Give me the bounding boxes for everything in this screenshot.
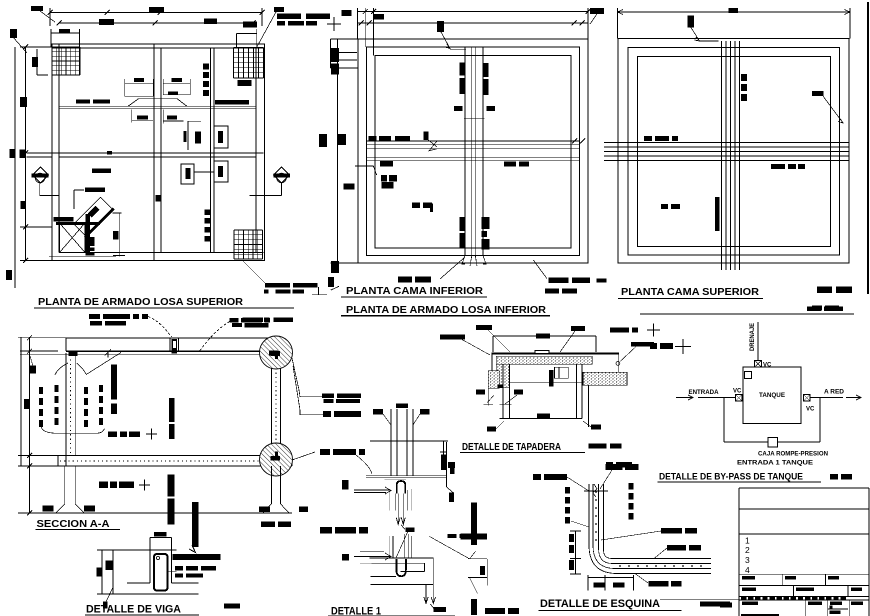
title block row4 cells bbox=[782, 574, 784, 585]
detalle 1: lower left label rows bbox=[320, 527, 332, 534]
svg-text:PLANTA CAMA INFERIOR: PLANTA CAMA INFERIOR bbox=[346, 285, 483, 297]
plan1 top-right mesh dim bracket bbox=[236, 32, 256, 34]
detalle 1: left arrow callout upper bbox=[342, 480, 349, 490]
black corner joints inside detail circles bbox=[270, 351, 280, 356]
title block frame bbox=[739, 487, 869, 489]
tapadera: center bottom dimension bbox=[499, 418, 582, 420]
seccion A-A: black wall-slab joint bbox=[69, 351, 78, 356]
seccion A-A: rebar dash columns bbox=[39, 387, 43, 394]
left datum marker: diamond over circle bbox=[33, 167, 49, 183]
esquina: bar columns bbox=[565, 487, 570, 494]
detalle 1: upper leaders/blobs bbox=[373, 409, 383, 415]
detalle 1: right bottom bar bbox=[471, 599, 477, 615]
svg-text:PLANTA DE ARMADO LOSA INFERIOR: PLANTA DE ARMADO LOSA INFERIOR bbox=[346, 304, 546, 316]
rebar callout boxes center-right bbox=[187, 121, 189, 150]
bars bottom of by-pass area bbox=[606, 462, 613, 468]
L-bracket callouts below beam bbox=[131, 109, 133, 122]
detalle de viga: text bars bbox=[173, 554, 221, 560]
seccion A-A: top label rows bbox=[230, 318, 239, 323]
tapadera: left support block bbox=[488, 371, 499, 389]
svg-text:ENTRADA 1 TANQUE: ENTRADA 1 TANQUE bbox=[737, 460, 813, 467]
detalle 1: bottom drop lines bbox=[425, 585, 427, 602]
svg-text:1: 1 bbox=[745, 535, 750, 545]
detalle de viga: top width dimension bbox=[150, 537, 172, 539]
svg-text:PLANTA CAMA SUPERIOR: PLANTA CAMA SUPERIOR bbox=[621, 286, 759, 298]
tapadera: right lower dimension bbox=[588, 385, 590, 427]
rotated opening rectangle bbox=[73, 196, 115, 238]
esquina: left dim line bbox=[575, 531, 577, 574]
seccion A-A: hatched detail circles bbox=[260, 336, 293, 369]
bars under plan1 (leader text) bbox=[89, 314, 100, 319]
plan1 annotation text blobs bbox=[31, 6, 43, 11]
detalle de viga: slab soffit lines bbox=[127, 582, 150, 584]
plan2 left dimension bbox=[330, 39, 332, 68]
detalle de viga: left dimension bbox=[101, 550, 103, 594]
plan3 top dimension bbox=[618, 11, 851, 13]
tapadera: lid top heavy line bbox=[492, 352, 619, 354]
seccion A-A: right callout leaders bbox=[292, 358, 322, 397]
plan3 leader blob bbox=[688, 16, 695, 28]
plan2 bottom bars and leaders bbox=[398, 277, 412, 283]
svg-text:ENTRADA: ENTRADA bbox=[689, 389, 720, 396]
dashes below thick cross bbox=[89, 237, 94, 246]
detalle 1: heavy cross bar bbox=[471, 503, 477, 545]
svg-text:TANQUE: TANQUE bbox=[759, 392, 785, 399]
plan1 mesh width dim bbox=[51, 32, 80, 34]
tapadera: lid right end bbox=[618, 353, 620, 373]
esquina: corner wall lines bbox=[589, 484, 711, 574]
esquina: rebar dots bbox=[595, 491, 597, 493]
detalle 1: lower left arrow bbox=[342, 554, 349, 561]
plan cama superior: nested rectangles bbox=[618, 39, 849, 264]
right datum marker: diamond over circle bbox=[274, 167, 290, 183]
svg-text:DETALLE DE BY-PASS DE TANQUE: DETALLE DE BY-PASS DE TANQUE bbox=[659, 472, 803, 483]
tapadera: right ledge concrete bbox=[583, 372, 627, 385]
plan losa superior: inner wall lines bbox=[58, 44, 60, 253]
plan losa superior: outer slab edge bbox=[52, 44, 265, 261]
line below X-box bbox=[49, 255, 116, 257]
seccion A-A: bracket curves around dash columns bbox=[55, 363, 68, 375]
bars right above title2 bbox=[548, 278, 568, 283]
tapadera: concrete band under lid bbox=[496, 356, 592, 364]
seccion A-A: left dimension lines bbox=[29, 337, 31, 513]
tapadera: lifting plate notch on lid bbox=[535, 351, 549, 354]
plan2 center vertical rebar band bbox=[464, 47, 466, 256]
seccion A-A: right foot bbox=[271, 466, 273, 504]
svg-text:3: 3 bbox=[745, 555, 750, 565]
seccion A-A: top slab anchor insert bbox=[170, 338, 179, 351]
esquina: bottom dimension bbox=[588, 577, 633, 579]
seccion A-A: bottom slab bbox=[58, 455, 292, 457]
svg-text:2: 2 bbox=[745, 545, 750, 555]
detalle de viga: stirrup bbox=[154, 554, 168, 591]
rebar dash column right of center bbox=[203, 64, 209, 70]
plan losa superior: center horizontal double line bbox=[52, 152, 264, 154]
seccion A-A: top slab bbox=[66, 337, 281, 339]
svg-text:SECCION A-A: SECCION A-A bbox=[37, 518, 110, 530]
seccion A-A: left wall bbox=[65, 353, 67, 466]
seccion A-A: callout text rows right bbox=[322, 394, 334, 398]
detalle 1: lower slab outline bbox=[370, 557, 434, 559]
seccion A-A: footing label blobs bbox=[43, 506, 54, 512]
tapadera: lower-left dimension bbox=[487, 388, 489, 406]
detalle de viga: leader to text bbox=[167, 571, 177, 573]
svg-text:CAJA ROMPE-PRESION: CAJA ROMPE-PRESION bbox=[758, 451, 828, 458]
svg-text:DETALLE 1: DETALLE 1 bbox=[331, 606, 381, 616]
by-pass: stray plus marks left bbox=[650, 343, 657, 349]
plan3 horizontal rebar band bbox=[604, 142, 849, 144]
by-pass: separator line bbox=[640, 313, 854, 315]
tapadera: left opening wall bbox=[502, 364, 504, 418]
detalle 1: upper hline bbox=[370, 440, 448, 442]
seccion A-A: interior label rows bbox=[108, 432, 117, 438]
plan1 bottom-left small bracket lines bbox=[73, 190, 75, 209]
plan cama inferior: nested rectangles bbox=[358, 39, 588, 263]
detalle 1: leader from dash row to step bbox=[448, 534, 457, 538]
thick cross marker at box corner bbox=[86, 214, 91, 256]
bar left of title block bbox=[720, 603, 732, 608]
title block row5 cells bbox=[792, 585, 794, 596]
tapadera: left corner concrete bbox=[496, 364, 509, 388]
plan2 center horizontal rebar band bbox=[367, 140, 580, 142]
svg-text:4: 4 bbox=[745, 565, 750, 575]
detalle 1: right bar assembly bbox=[468, 558, 487, 560]
corner rebar mesh bottom-right bbox=[233, 230, 235, 259]
esquina: leader texts bbox=[533, 474, 541, 480]
detalle de viga: slab top line bbox=[113, 549, 177, 551]
detalle 1: wall lines below upper slab bbox=[389, 489, 391, 510]
seccion A-A: right wall bbox=[280, 353, 282, 466]
detalle de viga: title leader bbox=[106, 587, 113, 602]
by-pass: tank box bbox=[743, 367, 801, 424]
plan3 vertical rebar band bbox=[721, 41, 723, 270]
leader to mesh bottom-right, bars below plan1 bbox=[243, 261, 265, 283]
detalle 1: right step and blob bbox=[446, 442, 448, 487]
svg-text:DETALLE DE VIGA: DETALLE DE VIGA bbox=[86, 604, 181, 616]
leader from text to plan corner bbox=[40, 11, 55, 22]
detalle 1: drop pipe with arrows bbox=[397, 493, 399, 523]
title block bottom cells bbox=[804, 600, 806, 616]
tapadera: center handle bar bbox=[549, 370, 554, 387]
by-pass: bypass loop bbox=[723, 398, 725, 443]
plan3 label rows bbox=[644, 136, 652, 141]
bottom-left cross-braced box bbox=[60, 223, 86, 253]
plan2 top dimension lines bbox=[358, 11, 589, 13]
seccion A-A: second heavy bar bbox=[192, 502, 199, 547]
plan losa superior: center column grid (vertical double line) bbox=[153, 44, 155, 261]
detalle 1: upper wall lines bbox=[390, 409, 392, 476]
tapadera: top leaders and blobs bbox=[476, 325, 492, 330]
svg-text:VC: VC bbox=[763, 363, 772, 369]
seccion A-A: base line bbox=[56, 512, 292, 514]
detalle 1: lower wall lines bbox=[389, 536, 391, 558]
svg-text:DRENAJE: DRENAJE bbox=[750, 323, 756, 351]
plan2 top leader blob bbox=[437, 21, 444, 32]
detalle de viga: beam sides bbox=[149, 550, 151, 583]
svg-text:PLANTA DE ARMADO LOSA SUPERIOR: PLANTA DE ARMADO LOSA SUPERIOR bbox=[38, 296, 243, 308]
plan1 left dimension lines bbox=[25, 47, 27, 261]
title block horizontal dividers bbox=[739, 508, 869, 510]
plan losa superior: right vertical double line bbox=[210, 48, 212, 253]
svg-text:VC: VC bbox=[806, 407, 815, 413]
seccion A-A: left foot bbox=[64, 466, 66, 504]
stray blob left of plan3 bbox=[590, 8, 604, 14]
plan2 rebar bars near cross bbox=[460, 63, 465, 76]
by-pass: left valve bbox=[736, 395, 743, 402]
plan losa superior: beam double line with jog bbox=[59, 105, 256, 107]
detalle 1: lower U hook bar bbox=[396, 559, 406, 576]
bars top right of plan1 bbox=[277, 14, 301, 20]
by-pass: right valve bbox=[804, 395, 811, 402]
detalle de viga: ground line bbox=[113, 593, 199, 595]
tapadera: left edge drop bbox=[491, 353, 493, 380]
plus mark bbox=[327, 23, 341, 25]
svg-text:DETALLE DE ESQUINA: DETALLE DE ESQUINA bbox=[540, 598, 660, 610]
plan1 top dimension lines bbox=[50, 12, 262, 14]
seccion A-A: wall top anchor tick bbox=[107, 351, 109, 358]
tapadera: top dimension bbox=[493, 335, 596, 337]
sheet right border line bbox=[867, 2, 869, 294]
esc bars below title bbox=[242, 317, 263, 322]
title block fine print band bbox=[741, 597, 746, 600]
svg-text:A RED: A RED bbox=[824, 389, 845, 396]
seccion A-A: long rebar bar left bbox=[111, 365, 117, 400]
tapadera: bottom-left tick bbox=[487, 427, 496, 432]
seccion A-A: center long rebar bar bbox=[169, 398, 175, 422]
by-pass: top valve bbox=[755, 361, 762, 368]
corner rebar mesh top-left bbox=[51, 47, 53, 75]
detalle 1: inverted-U hook bar bbox=[397, 481, 405, 493]
tapadera: soffit line through opening bbox=[509, 381, 588, 383]
svg-text:VC: VC bbox=[733, 389, 742, 395]
esquina: top break tick bbox=[584, 490, 608, 492]
corner rebar mesh top-right bbox=[233, 48, 235, 79]
plan2 label rows bbox=[368, 136, 376, 141]
tapadera: right opening wall bbox=[576, 364, 578, 418]
detalle 1: upper slab double line bbox=[366, 475, 447, 477]
stray dim left margin bbox=[443, 441, 445, 470]
dimension table brackets above beam bbox=[125, 83, 154, 96]
svg-text:DETALLE DE TAPADERA: DETALLE DE TAPADERA bbox=[462, 442, 561, 453]
detalle 1: left label rows for slab bbox=[320, 449, 330, 455]
